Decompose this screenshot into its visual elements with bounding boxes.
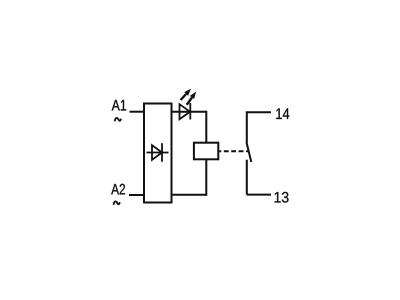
wire terminal 13 horizontal (247, 194, 271, 196)
terminal label A1 (112, 100, 126, 111)
wire contact lower vertical (246, 160, 248, 195)
wire LED to coil (205, 111, 207, 143)
wire rectifier to LED (172, 111, 207, 113)
terminal label 14 (276, 108, 289, 119)
terminal label 13 (275, 192, 289, 203)
LED emission arrow 2 (187, 92, 197, 105)
diode D1 anode line (147, 152, 169, 154)
wire A1 terminal (130, 111, 146, 113)
wire contact upper vertical (246, 111, 248, 142)
diode D1 triangle (152, 145, 162, 160)
wire A2 terminal (129, 194, 145, 196)
diode D1 cathode bar (161, 143, 163, 162)
wire bottom return to rectifier (172, 194, 207, 196)
AC marker ~ under A1 (115, 118, 121, 121)
wire terminal 14 horizontal (247, 111, 271, 113)
AC marker ~ under A2 (114, 201, 120, 204)
LED D2 triangle (180, 104, 191, 119)
wire coil to bottom (205, 159, 207, 196)
LED D2 cathode bar (189, 103, 191, 120)
LED emission arrow 1 (181, 89, 191, 100)
mechanical link (dashed) (219, 150, 248, 152)
rectifier block outline (144, 104, 172, 203)
relay coil K1 (194, 143, 218, 160)
terminal label A2 (111, 184, 125, 195)
contact blade (NO contact) (247, 142, 252, 162)
